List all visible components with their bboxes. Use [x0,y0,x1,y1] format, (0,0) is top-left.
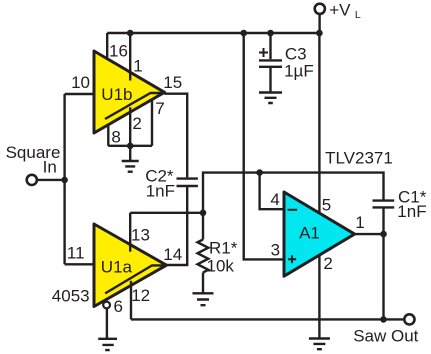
svg-text:1nF: 1nF [146,182,175,201]
switch diagonal U1a [105,265,166,293]
ground under C3 [259,93,282,104]
svg-text:R1*: R1* [209,239,238,258]
plus sign pin 3 [288,255,296,263]
pin 1 [129,33,131,81]
wire output down to saw rail [382,234,384,319]
pin 2 [129,107,131,146]
junction dot output [380,231,387,238]
junction dot U1b ground [127,143,134,150]
wire pin 6 to ground [106,308,108,338]
output terminal Saw Out [404,314,414,324]
svg-text:6: 6 [114,297,123,316]
svg-text:4: 4 [270,190,279,209]
svg-text:U1a: U1a [101,257,133,276]
pin 6 bubble [103,302,110,309]
switch diagonal U1b [105,93,165,119]
svg-text:5: 5 [322,195,331,214]
pin 15 wire to C2 [165,94,188,178]
wire to op-amp pin 4 [260,173,284,210]
svg-text:1nF: 1nF [397,202,426,221]
pin 13 [129,213,131,252]
IC U1a [94,224,167,307]
pin 5 from supply rail [318,33,320,214]
svg-text:L: L [355,9,361,21]
resistor R1 [202,213,204,240]
junction dot top rail / +VL stem [316,30,323,37]
wire top supply rail [107,32,319,34]
pin 2 to ground [318,256,320,338]
svg-text:12: 12 [131,286,150,305]
capacitor C2 [177,177,198,179]
svg-text:A1: A1 [299,224,320,243]
svg-text:10k: 10k [207,256,235,275]
svg-text:1: 1 [355,213,364,232]
junction dot top rail / pin3 branch [240,30,247,37]
svg-text:16: 16 [109,41,128,60]
pin 8 [107,125,109,146]
svg-text:TLV2371: TLV2371 [325,149,393,168]
IC U1b [94,51,165,133]
svg-text:2: 2 [323,254,332,273]
svg-text:U1b: U1b [101,85,132,104]
svg-text:2: 2 [132,114,141,133]
svg-text:1µF: 1µF [284,61,314,80]
wire C2 bottom rail to R1 node [130,212,203,214]
svg-text:8: 8 [111,128,120,147]
ground under R1 [193,293,214,305]
junction dot top rail / U1b pin1 [127,30,134,37]
wire input vertical [63,94,65,264]
svg-text:7: 7 [155,99,164,118]
svg-text:15: 15 [163,73,182,92]
pin 1 output wire [355,233,384,235]
pin 7 [151,100,153,146]
junction dot saw rail [380,316,387,323]
svg-text:4053: 4053 [52,286,90,305]
pin 11 wire [65,263,94,265]
capacitor C3 [269,33,271,59]
svg-text:13: 13 [131,225,150,244]
svg-text:10: 10 [71,73,90,92]
svg-text:Saw Out: Saw Out [353,326,418,345]
ground under U1b [122,146,139,172]
pin 14 wire to C2 bottom [167,187,188,265]
junction dot top rail / C3 [267,30,274,37]
minus sign pin 4 [288,209,298,211]
ground under pin 6 [98,339,117,350]
capacitor C1 [373,199,395,201]
svg-text:1: 1 [133,57,142,76]
svg-text:In: In [43,158,57,177]
wire saw out rail [131,318,404,320]
svg-text:14: 14 [163,245,182,264]
power terminal +VL [315,4,325,14]
svg-text:11: 11 [67,244,85,263]
wire R1 node up and over to C1 [203,173,384,213]
input terminal Square In [27,175,37,185]
pin 12 [130,281,132,320]
svg-text:3: 3 [271,240,280,259]
junction dot TLV rail [256,169,263,176]
op-amp A1 [284,192,355,276]
ground under op-amp pin 2 [309,339,330,350]
junction dot R1 node [200,210,207,217]
pin 16 [106,33,108,60]
wire U1b bottom rail [108,145,152,147]
junction dot input [61,177,68,184]
pin 10 wire [65,93,94,95]
wire from supply rail to op-amp pin 3 [244,33,284,259]
svg-text:+V: +V [329,1,351,20]
